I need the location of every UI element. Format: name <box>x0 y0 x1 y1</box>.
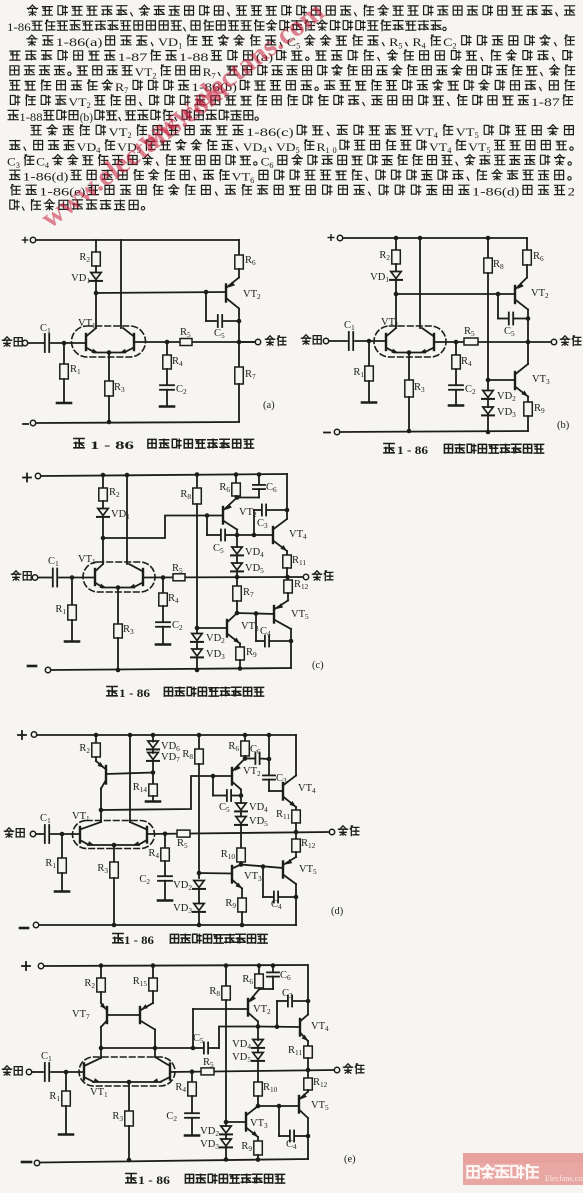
node C4 right <box>306 1134 311 1139</box>
svg-text:R3: R3 <box>114 382 125 394</box>
transistor VT7 right pnp <box>152 991 154 1003</box>
svg-text:VD5: VD5 <box>245 563 264 575</box>
node input/R1 <box>60 832 65 837</box>
svg-text:R6: R6 <box>228 741 239 753</box>
resistor R8 <box>196 475 198 489</box>
dual transistor VT1 dashed ellipse <box>79 1057 175 1086</box>
svg-text:VD4: VD4 <box>249 802 268 814</box>
svg-text:4: 4 <box>447 146 452 155</box>
svg-text:VD2: VD2 <box>497 391 516 403</box>
diode VD7 <box>152 750 154 754</box>
svg-text:1: 1 <box>178 41 182 50</box>
resistor R1 <box>71 578 73 606</box>
resistor R2 <box>395 238 397 250</box>
svg-text:): ) <box>289 127 294 139</box>
node C3 tap <box>275 1024 280 1029</box>
resistor R5 <box>180 339 192 346</box>
svg-text:C6: C6 <box>280 970 291 982</box>
node VT3 base tap <box>224 1120 229 1125</box>
node rail right collector <box>418 236 423 241</box>
svg-text:VT2: VT2 <box>253 1004 271 1016</box>
node VD7 bottom <box>152 761 154 773</box>
input terminal <box>11 571 20 580</box>
svg-text:C: C <box>36 157 45 169</box>
svg-text:R1: R1 <box>353 367 364 379</box>
resistor R4 <box>166 342 168 355</box>
node R4 tap <box>165 340 170 345</box>
svg-text:R: R <box>115 82 124 94</box>
svg-text:VT4: VT4 <box>298 783 316 795</box>
wire VT3 collector <box>527 342 529 364</box>
svg-text:VT2: VT2 <box>531 288 549 300</box>
svg-text:R12: R12 <box>294 579 309 591</box>
svg-text:a: a <box>90 37 98 49</box>
ground R1 <box>368 381 370 401</box>
svg-text:R4: R4 <box>172 356 183 368</box>
diode VD1 <box>395 264 397 271</box>
node output junction <box>237 340 242 345</box>
output terminal <box>303 574 308 579</box>
svg-text:VD2: VD2 <box>173 880 192 892</box>
svg-text:VT2: VT2 <box>243 289 261 301</box>
wire VT5 collector <box>295 884 297 925</box>
svg-text:VD1: VD1 <box>370 272 389 284</box>
dual transistor VT1 dashed ellipse <box>374 326 446 357</box>
transistor VT1 left half <box>85 334 87 350</box>
elecfans red banner bottom-right <box>463 1153 583 1185</box>
svg-text:R2: R2 <box>109 487 120 499</box>
node VT7 left collector <box>99 1046 104 1051</box>
svg-text:5: 5 <box>475 131 479 140</box>
node VT3 base tap <box>195 626 200 631</box>
node R10 bottom <box>257 1096 259 1106</box>
output terminal <box>334 1067 339 1072</box>
ground C2 <box>160 405 174 408</box>
svg-text:C1: C1 <box>40 813 51 825</box>
svg-text:VT5: VT5 <box>311 1100 329 1112</box>
svg-text:R11: R11 <box>276 809 290 821</box>
svg-text:VD5: VD5 <box>249 816 268 828</box>
negative supply rail <box>324 432 330 434</box>
wire VD1 node to VT2 base <box>96 292 226 293</box>
input terminal <box>301 335 310 344</box>
svg-text:C2: C2 <box>139 874 150 886</box>
node C4 tap <box>254 611 259 616</box>
transistor VT1 right half <box>169 1064 171 1080</box>
svg-text:R: R <box>317 142 326 154</box>
svg-text:2: 2 <box>568 187 576 199</box>
svg-text:6: 6 <box>269 161 273 170</box>
capacitor C5 <box>218 315 222 327</box>
svg-text:VT4: VT4 <box>289 529 307 541</box>
node VT3 collector <box>235 611 240 616</box>
node VD1/R2 junction <box>94 291 99 296</box>
capacitor C4 wiring <box>262 867 264 898</box>
svg-text:VD2: VD2 <box>206 633 225 645</box>
svg-text:C: C <box>7 157 16 169</box>
capacitor C4 <box>265 636 269 647</box>
svg-text:(b): (b) <box>557 420 570 431</box>
wire R7 to VT3 collector node <box>236 601 238 613</box>
capacitor C5 <box>227 790 231 801</box>
transistor VT1 left half <box>83 1064 85 1080</box>
svg-text:2: 2 <box>152 71 156 80</box>
svg-text:VD: VD <box>77 142 97 154</box>
svg-text:7: 7 <box>124 86 128 95</box>
svg-text:R10: R10 <box>221 849 236 861</box>
resistor R2 <box>95 735 97 743</box>
svg-text:): ) <box>98 37 103 49</box>
node VD3 bottom <box>486 430 491 435</box>
svg-text:1 - 86: 1 - 86 <box>124 935 154 947</box>
dual transistor VT1 dashed ellipse <box>83 562 155 592</box>
svg-text:R3: R3 <box>414 382 425 394</box>
svg-text:1-86: 1-86 <box>246 127 277 139</box>
wire R2 top <box>95 240 97 252</box>
wire VD5 down crossing output <box>240 825 242 848</box>
node R10 bottom <box>240 862 242 865</box>
node C4 tap <box>277 1104 282 1109</box>
capacitor C2 <box>191 1096 193 1113</box>
diode VD4 <box>253 1040 263 1047</box>
svg-text:C4: C4 <box>286 1139 297 1151</box>
ground R1 <box>71 620 73 640</box>
svg-text:VT5: VT5 <box>291 609 309 621</box>
svg-text:4: 4 <box>45 161 50 170</box>
wire VT4 base line <box>237 534 273 536</box>
wire left collector to VT1 <box>100 1048 102 1058</box>
svg-text:2: 2 <box>452 41 456 50</box>
svg-text:6: 6 <box>250 176 254 185</box>
resistor R6 <box>526 238 528 250</box>
circuit (b) positive supply rail <box>328 237 334 239</box>
svg-text:C1: C1 <box>48 556 59 568</box>
svg-text:VT1: VT1 <box>78 554 96 566</box>
resistor R10 <box>254 1082 262 1096</box>
capacitor C5 wiring <box>212 776 214 796</box>
capacitor C3 <box>263 775 275 779</box>
ground R1 <box>61 873 63 890</box>
resistor R9 <box>241 889 243 899</box>
svg-text:C2: C2 <box>166 1111 177 1123</box>
svg-text:VT: VT <box>68 97 86 109</box>
svg-text:R9: R9 <box>225 898 236 910</box>
svg-text:1-88: 1-88 <box>179 52 209 64</box>
svg-text:VD: VD <box>276 142 296 154</box>
negative supply rail <box>28 665 36 668</box>
wire R8 down to diode chain <box>487 273 489 390</box>
node VT3 base tap <box>486 378 491 383</box>
svg-text:C1: C1 <box>344 320 355 332</box>
wire C5 step up to VT2 collector <box>219 1027 258 1049</box>
svg-text:R5: R5 <box>172 563 183 575</box>
input terminal and label <box>2 337 11 346</box>
resistor R8 <box>487 238 489 258</box>
node C5 tap <box>205 513 210 518</box>
node C5 right <box>526 316 531 321</box>
resistor R3 <box>105 381 114 396</box>
resistor R1 <box>368 341 370 366</box>
wire R6 bottom <box>235 496 237 498</box>
wire VT7 bases <box>107 1014 140 1016</box>
transistor VT2 pnp <box>526 265 528 278</box>
svg-text:1-87: 1-87 <box>118 52 148 64</box>
svg-text:C: C <box>443 37 453 49</box>
resistor R8 <box>225 966 227 986</box>
transistor VT3 npn <box>488 379 515 381</box>
svg-text:R: R <box>389 37 399 49</box>
node VD3 bottom <box>224 1157 229 1162</box>
red diagonal watermark upper <box>35 0 330 235</box>
svg-text:R2: R2 <box>79 252 90 264</box>
diode VD5 <box>257 1048 259 1053</box>
diode VD3 <box>196 642 198 649</box>
resistor R4 <box>162 578 164 594</box>
transistor VT1 left half <box>94 569 96 585</box>
svg-text:VT4: VT4 <box>311 1021 329 1033</box>
ground R1 <box>65 1106 67 1133</box>
resistor R2 <box>100 966 102 979</box>
svg-text:R6: R6 <box>242 974 253 986</box>
resistor R11 <box>286 551 288 555</box>
node R4 tap <box>454 340 459 345</box>
transistor VT7 left pnp <box>100 992 102 1003</box>
svg-text:R5: R5 <box>180 327 191 339</box>
svg-text:R5: R5 <box>464 326 475 338</box>
ground R14 <box>152 796 154 800</box>
svg-text:C5: C5 <box>219 802 230 814</box>
node output junction <box>526 340 531 345</box>
transistor VT2 pnp <box>231 768 233 785</box>
svg-text:VT3: VT3 <box>532 374 550 386</box>
node VD1 junction <box>394 292 399 297</box>
node VT1 emitters <box>112 843 117 848</box>
resistor R5 <box>177 830 190 837</box>
svg-text:VT: VT <box>232 172 250 184</box>
svg-text:VD3: VD3 <box>497 407 516 419</box>
transistor VT5 pnp mirrored <box>307 1090 309 1092</box>
resistor R6 <box>235 475 237 484</box>
diode VD3 <box>225 1134 227 1139</box>
svg-text:R2: R2 <box>379 250 390 262</box>
resistor R1 <box>65 1072 67 1091</box>
diode VD2 <box>221 1126 231 1133</box>
resistor R9 <box>257 1137 259 1141</box>
wire VT1 right base to output <box>147 832 329 834</box>
resistor R6 <box>244 735 246 741</box>
wire VT5 collector <box>307 1118 309 1159</box>
wire VT2 base line <box>193 1008 248 1010</box>
svg-text:C4: C4 <box>271 899 282 911</box>
node R4 tap <box>163 832 168 837</box>
node R4 tap <box>190 1069 195 1074</box>
capacitor C2 <box>160 385 174 390</box>
resistor R10 <box>237 848 246 862</box>
node C3 tap <box>252 533 257 538</box>
wire VT4 base line <box>258 1026 300 1029</box>
resistor R3 <box>113 845 115 862</box>
svg-text:VT5: VT5 <box>299 864 317 876</box>
wire R11 to output <box>295 823 297 832</box>
svg-text:R11: R11 <box>292 555 306 567</box>
capacitor C3 wiring <box>276 1001 278 1027</box>
wire R4-C2 <box>166 369 168 385</box>
capacitor C1 <box>53 569 57 587</box>
svg-text:R1: R1 <box>45 858 56 870</box>
diode VD5 <box>240 812 242 817</box>
svg-text:C1: C1 <box>41 1051 52 1063</box>
negative supply rail <box>20 927 28 930</box>
resistor R5 <box>201 1068 214 1075</box>
wire VT1 right base to output <box>143 576 303 579</box>
svg-text:C5: C5 <box>504 326 515 338</box>
svg-text:R14: R14 <box>133 782 148 794</box>
svg-text:R7: R7 <box>243 587 254 599</box>
resistor R14 <box>152 773 154 785</box>
node input/R1 <box>70 575 75 580</box>
resistor R12 <box>295 832 297 839</box>
svg-text:C5: C5 <box>213 543 224 555</box>
diode VD3 <box>198 889 200 904</box>
transistor VT4 npn <box>272 527 274 543</box>
node VT1 emitters <box>116 585 121 590</box>
dual transistor VT1 dashed ellipse <box>73 821 155 849</box>
node VT3 base tap <box>197 871 202 876</box>
svg-text:R8: R8 <box>493 259 504 271</box>
svg-text:1-86: 1-86 <box>7 22 31 34</box>
svg-text:R6: R6 <box>245 255 256 267</box>
capacitor C1 <box>45 1063 49 1081</box>
diode VD6 <box>152 735 154 742</box>
wire C3 to VT4 base <box>268 780 270 791</box>
wire R3 to rail <box>108 396 110 422</box>
resistor R12 <box>287 577 290 580</box>
capacitor C3 <box>288 996 292 1007</box>
svg-text:1-88: 1-88 <box>19 112 42 124</box>
svg-text:1 - 86: 1 - 86 <box>138 1175 170 1187</box>
svg-text:VD2: VD2 <box>200 1126 219 1138</box>
wire VD1 to node <box>95 281 97 293</box>
capacitor C1 <box>45 825 49 843</box>
svg-text:R4: R4 <box>175 1082 186 1094</box>
negative supply rail <box>23 423 28 425</box>
resistor R2 <box>92 252 101 266</box>
ground C2 <box>191 1118 193 1134</box>
svg-text:R12: R12 <box>313 1077 328 1089</box>
resistor R1 <box>61 834 63 858</box>
svg-text:): ) <box>515 187 520 199</box>
transistor VT2 pnp <box>238 269 240 278</box>
svg-text:3: 3 <box>16 161 20 170</box>
wire right collector <box>126 475 128 564</box>
node C4 right <box>289 639 294 644</box>
diode VD1 <box>102 501 104 508</box>
svg-text:VD4: VD4 <box>245 547 264 559</box>
capacitor C2 <box>164 861 166 876</box>
wire R9 to rail <box>527 416 529 431</box>
resistor R6 <box>258 966 260 974</box>
svg-text:R7: R7 <box>245 369 256 381</box>
input terminal <box>2 1066 11 1075</box>
ground C2 <box>455 390 457 404</box>
svg-text:R1: R1 <box>55 604 66 616</box>
resistor R1 <box>63 343 65 364</box>
diode VD2 <box>192 634 202 641</box>
svg-text:c: c <box>281 127 289 139</box>
svg-text:VT1: VT1 <box>90 1087 108 1099</box>
diode VD5 <box>236 556 238 564</box>
node output junction <box>294 830 299 835</box>
wire VT2 collector to output <box>238 309 240 343</box>
svg-text:R2: R2 <box>79 743 90 755</box>
svg-text:Elecfans.com: Elecfans.com <box>545 1174 583 1183</box>
wire left collector <box>395 294 397 328</box>
node VT6 collector <box>99 808 104 813</box>
node C5 right / VT4 base line <box>235 533 240 538</box>
transistor VT1 right half <box>433 334 435 350</box>
resistor R4 <box>191 1072 193 1082</box>
diode VD2 <box>194 881 204 888</box>
wire C2 to ground <box>166 390 168 405</box>
capacitor C5 <box>204 1043 208 1054</box>
wire R11 to output <box>307 1058 309 1070</box>
wire VT5 base line <box>241 865 283 869</box>
node VD5 output junction <box>235 575 240 580</box>
capacitor C6 <box>255 753 259 764</box>
capacitor C4 wiring <box>255 614 257 642</box>
transistor VT2 pnp <box>247 999 249 1016</box>
resistor R8 <box>198 735 200 749</box>
diode VD3 <box>483 407 493 414</box>
wire R8 down to diode chain <box>198 764 200 878</box>
transistor VT4 npn <box>282 783 284 800</box>
output terminal <box>239 341 255 343</box>
transistor VT5 pnp mirrored <box>295 852 297 857</box>
node rail R8 <box>486 236 491 241</box>
svg-text:C6: C6 <box>266 482 277 494</box>
capacitor C3 wiring <box>253 510 255 535</box>
output terminal <box>329 829 334 834</box>
svg-text:R3: R3 <box>123 624 134 636</box>
caption figure 1-86 (e) <box>126 1174 285 1188</box>
svg-text:1-86: 1-86 <box>472 187 502 199</box>
resistor R3 <box>408 353 410 381</box>
node right collector crossing <box>153 1046 158 1051</box>
svg-text:): ) <box>64 172 69 184</box>
capacitor C2 <box>455 369 457 385</box>
capacitor C1 <box>45 334 49 352</box>
svg-text:VT1: VT1 <box>78 318 96 330</box>
wire right collector <box>129 735 131 822</box>
svg-text:R15: R15 <box>133 976 148 988</box>
resistor R4 <box>164 834 166 848</box>
svg-text:R5: R5 <box>203 1057 214 1069</box>
svg-text:VT3: VT3 <box>244 871 262 883</box>
transistor VT5 pnp mirrored <box>287 593 289 601</box>
wire VT2 collector down <box>257 1022 259 1041</box>
ground R1 <box>57 402 71 405</box>
wire rail to C3 <box>268 735 270 775</box>
circuit (a) positive supply rail <box>22 239 27 241</box>
svg-text:C2: C2 <box>176 384 187 396</box>
svg-text:VD: VD <box>243 142 263 154</box>
svg-text:): ) <box>89 112 93 124</box>
wire R3 to rail <box>117 638 119 670</box>
svg-text:R4: R4 <box>461 356 472 368</box>
svg-text:5: 5 <box>296 146 300 155</box>
wire VT5 collector <box>290 629 292 668</box>
capacitor C5 wiring <box>497 294 499 319</box>
